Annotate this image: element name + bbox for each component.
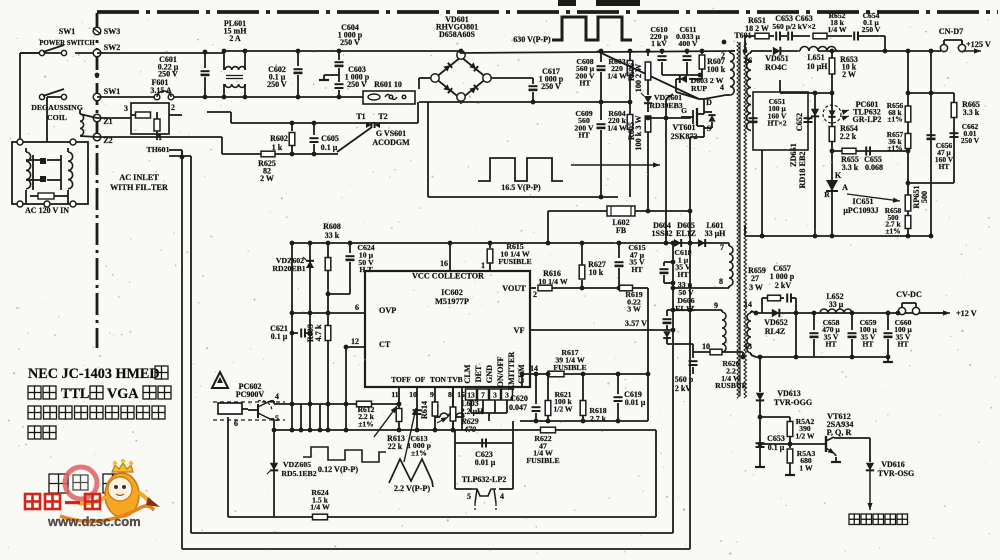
label VS601 (372, 129, 410, 147)
svg-text:WITH FIL.TER: WITH FIL.TER (110, 183, 168, 192)
svg-text:CT: CT (379, 340, 391, 349)
capacitor C610 (658, 49, 667, 75)
svg-text:6: 6 (355, 303, 359, 312)
adjust arrow 2 (404, 408, 417, 462)
label C657 (770, 264, 795, 290)
label R625 (258, 159, 276, 183)
label C604 (338, 23, 363, 47)
svg-text:AC 120 V IN: AC 120 V IN (25, 206, 69, 215)
svg-text:10: 10 (409, 390, 417, 399)
svg-text:10: 10 (702, 342, 710, 351)
label VD616 (878, 460, 914, 478)
label R654 (840, 124, 858, 141)
label C611 (676, 25, 700, 48)
fusible resistor R601 box (363, 91, 415, 104)
label C653b (767, 434, 785, 452)
primary return y102 (419, 101, 630, 103)
label C608 (575, 57, 595, 88)
svg-text:10 1/4 W: 10 1/4 W (538, 277, 568, 286)
svg-text:ON/OFF: ON/OFF (496, 357, 505, 388)
switch pole 2 (39, 89, 66, 100)
IC602 box (365, 271, 530, 387)
svg-text:1 W: 1 W (799, 463, 813, 472)
capacitor C653b (756, 443, 765, 447)
capacitor C653 (776, 32, 787, 41)
zener VDZ601 (641, 93, 652, 103)
svg-text:100 2 W: 100 2 W (634, 63, 643, 92)
filter corner pin (44, 201, 50, 207)
wire x604 (0, 0, 1, 1)
ground VT612 (831, 454, 841, 462)
label S (707, 124, 712, 133)
label IC651 (843, 197, 878, 215)
node dot on border (95, 73, 100, 78)
pin 6 OVP wire (290, 303, 365, 315)
label PC601 (853, 100, 882, 124)
pin 2 (171, 103, 175, 112)
primary winding 2-4 (726, 51, 735, 95)
wire pin13 (751, 355, 888, 357)
bridge pin left (431, 74, 439, 82)
label R621 (553, 390, 572, 413)
degaussing coil (80, 110, 97, 137)
B+ rail to transformer (460, 51, 735, 53)
svg-text:TLP632-LP2: TLP632-LP2 (462, 475, 506, 484)
output +12V (920, 309, 977, 318)
waveform 2.2V triangle (389, 459, 433, 487)
label R609 rotated (306, 324, 323, 342)
label R617 (553, 348, 586, 372)
resistor R613 (396, 409, 402, 422)
resistor R602 (289, 121, 295, 157)
zener VDZ605 (267, 463, 278, 474)
label R612 (358, 405, 375, 428)
cap C608 (597, 49, 606, 105)
bridge diode 2 (469, 62, 478, 71)
label AC INLET (110, 173, 168, 192)
label R619 (625, 290, 642, 314)
vertical x191 (190, 156, 192, 533)
label L602 (612, 218, 629, 235)
svg-text:M51977P: M51977P (435, 297, 469, 306)
svg-text:+12 V: +12 V (956, 309, 977, 318)
svg-text:10 μH: 10 μH (807, 62, 829, 71)
label CT (379, 340, 391, 349)
svg-text:2: 2 (171, 103, 175, 112)
svg-text:POWER SWITCH: POWER SWITCH (39, 40, 95, 47)
svg-text:RD20EB1: RD20EB1 (272, 264, 305, 273)
pin 8 (719, 277, 723, 286)
svg-text:RL4Z: RL4Z (765, 327, 785, 336)
pin 9 (714, 301, 718, 310)
resistor R651 (755, 33, 774, 39)
pin 5 label (467, 492, 471, 501)
svg-text:10 k: 10 k (589, 268, 604, 277)
wire (962, 51, 964, 52)
title line 3 (28, 406, 165, 419)
label R613 (387, 434, 405, 451)
svg-text:TH601: TH601 (147, 145, 170, 154)
resistor R654 (829, 127, 835, 142)
zener ZD651 line (813, 91, 818, 236)
label C609 (574, 109, 594, 140)
wire pin8 return (671, 286, 729, 291)
svg-text:CV-DC: CV-DC (896, 290, 922, 299)
svg-text:3: 3 (493, 391, 497, 400)
pin 13 (744, 342, 752, 351)
svg-text:2: 2 (533, 290, 537, 299)
svg-text:±1%: ±1% (887, 144, 902, 153)
bridge diamond (435, 57, 487, 99)
diodes D604 D605 line (664, 241, 693, 246)
zener ZD651 (808, 109, 819, 121)
resistor R614 (432, 402, 438, 416)
svg-text:VDZ605: VDZ605 (283, 460, 311, 469)
primary return rail y197 (428, 196, 618, 198)
label C658 (822, 318, 840, 349)
svg-text:RUSBUE: RUSBUE (715, 381, 747, 390)
capacitor C615 (615, 241, 624, 291)
svg-text:0.068: 0.068 (865, 163, 883, 172)
svg-text:±1%: ±1% (885, 226, 900, 235)
resistor R627 (579, 241, 585, 291)
svg-text:250 V: 250 V (961, 136, 980, 145)
svg-text:www.dzsc.com: www.dzsc.com (47, 514, 141, 529)
svg-text:HT: HT (579, 79, 591, 88)
capacitor C655 (866, 147, 870, 156)
IC bottom labels (391, 375, 462, 384)
secondary gnd bus (745, 234, 933, 239)
TLP632 box (455, 421, 513, 489)
PC602 led box (218, 403, 248, 414)
label R614 rotated (420, 401, 429, 419)
wire pin14 (751, 311, 944, 316)
vertical x428 (428, 101, 461, 197)
svg-text:±1%: ±1% (358, 419, 374, 428)
resistor R604 (627, 102, 633, 197)
wire pin4 (270, 401, 274, 404)
svg-text:RD18 EB2: RD18 EB2 (798, 151, 807, 188)
svg-text:4.7 k: 4.7 k (314, 324, 323, 341)
winding pin4 wire (704, 95, 726, 99)
svg-text:COIL: COIL (47, 113, 67, 122)
watermark ring (65, 467, 97, 499)
resistor R616 (538, 285, 619, 291)
pin 14 (744, 300, 752, 309)
wire snubber join (662, 73, 702, 78)
label C662 (961, 122, 980, 145)
ferrite bead L602 (607, 206, 635, 216)
waveform 630V (552, 17, 632, 40)
wire y517 (228, 516, 656, 518)
resistor R619 (620, 285, 649, 291)
svg-text:33 μ: 33 μ (829, 300, 844, 309)
source wire (690, 132, 704, 310)
choke PL601 winding A (222, 49, 248, 70)
svg-text:VOUT: VOUT (502, 284, 526, 293)
watermark pian glyph (103, 474, 122, 493)
svg-text:IC602: IC602 (441, 288, 463, 297)
resistor R625 (261, 151, 275, 157)
cap C609 (597, 102, 606, 199)
capacitor C651 mark (749, 118, 758, 123)
svg-text:3: 3 (124, 104, 128, 113)
svg-text:5: 5 (467, 492, 471, 501)
label VOUT (502, 284, 526, 293)
label PL601 (224, 19, 248, 43)
capacitor C618 (660, 260, 676, 286)
TLP632 transistor (472, 489, 496, 510)
label C617 (539, 67, 564, 91)
wire VD613 down (758, 355, 763, 392)
C656 rail (929, 49, 934, 236)
svg-text:VT601: VT601 (672, 123, 695, 132)
svg-text:A: A (842, 183, 848, 192)
capacitor C623 (482, 439, 486, 448)
fuse F601 (154, 91, 174, 100)
svg-text:2 kV: 2 kV (775, 281, 791, 290)
wire pin10 R626 (693, 351, 710, 353)
watermark xin glyph (73, 475, 88, 490)
svg-text:VD651: VD651 (765, 54, 789, 63)
svg-text:H.T: H.T (359, 265, 373, 274)
output +125V (964, 40, 991, 54)
R665 C662 rail (953, 93, 955, 183)
pin VF wire (530, 328, 675, 333)
label L601 (705, 221, 727, 238)
svg-text:TTL: TTL (61, 386, 89, 402)
label G (681, 106, 687, 115)
wire y118 (207, 112, 418, 123)
svg-text:13: 13 (744, 342, 752, 351)
capacitor C603 (335, 68, 344, 99)
choke core (226, 76, 243, 79)
wire R5A2 down (758, 415, 790, 421)
rail after choke top (224, 50, 461, 52)
thermistor TH601 box (131, 103, 169, 134)
label R605 rotated (627, 115, 643, 151)
svg-text:2.2 V(P-P): 2.2 V(P-P) (394, 484, 431, 493)
wire y93 right (906, 91, 954, 96)
svg-text:OVP: OVP (379, 306, 396, 315)
wire (47, 97, 63, 142)
aux winding 7-8 (729, 243, 733, 288)
svg-text:TVR-OSG: TVR-OSG (878, 469, 914, 478)
label R629 (460, 417, 478, 434)
capacitor C605 (310, 121, 319, 157)
svg-text:SW1: SW1 (104, 87, 120, 96)
svg-text:27: 27 (751, 274, 759, 283)
svg-text:FUSIBLE: FUSIBLE (498, 257, 531, 266)
label R626 (715, 359, 747, 390)
label L651 (807, 53, 829, 71)
svg-text:RD5.1EB2: RD5.1EB2 (281, 469, 316, 478)
title line 1 (28, 366, 168, 382)
label VT612 (827, 412, 854, 437)
rail x346 (299, 347, 346, 432)
label C624 (357, 243, 374, 274)
node (788, 442, 793, 447)
label D606 (675, 296, 695, 313)
svg-text:R608: R608 (323, 222, 341, 231)
label R603 (607, 57, 627, 80)
filter corner pin (17, 201, 23, 207)
R653 rail (830, 49, 835, 93)
label D604 (652, 221, 673, 238)
resistor R603 (627, 49, 633, 105)
inductor L652 (812, 309, 855, 315)
svg-text:μPC1093J: μPC1093J (843, 206, 878, 215)
capacitor C656 (927, 135, 936, 140)
transistor VT601 (681, 108, 704, 134)
ground R5A3 (785, 470, 795, 475)
label C656 (935, 141, 954, 171)
wire y533 (191, 532, 673, 534)
label D (706, 98, 712, 107)
svg-text:560 p/2 kV×2: 560 p/2 kV×2 (772, 22, 815, 31)
resistor R624 (313, 514, 328, 520)
label R652 (827, 11, 846, 34)
svg-text:R601 10: R601 10 (374, 80, 402, 89)
svg-text:CLM: CLM (463, 364, 472, 383)
pin 10 (702, 342, 710, 351)
wire pin9 (667, 308, 722, 313)
svg-text:22 k: 22 k (388, 442, 403, 451)
label C660 (894, 318, 912, 349)
diode D606 (663, 325, 693, 352)
svg-text:7: 7 (481, 391, 485, 400)
resistor R658 (905, 216, 911, 229)
gate wire (646, 94, 691, 243)
label R656 (887, 101, 904, 124)
label D603 (691, 76, 724, 93)
diode VD651 (773, 47, 800, 55)
svg-text:VD652: VD652 (764, 318, 788, 327)
cap 33u 50V (663, 310, 672, 324)
label C603 (345, 65, 370, 89)
label C601 (158, 55, 179, 79)
svg-text:HT: HT (863, 340, 874, 349)
C651 box (753, 92, 808, 150)
spark gap electrodes (366, 122, 380, 128)
svg-text:±1%: ±1% (887, 115, 902, 124)
label RP651 rotated (912, 185, 929, 208)
svg-text:0.1 μ: 0.1 μ (271, 332, 288, 341)
switch SW1 labels (39, 27, 95, 47)
vertical x182 (181, 150, 183, 549)
label ZD651 rotated (789, 143, 807, 188)
svg-text:3.57 V: 3.57 V (625, 319, 647, 328)
wire pin5 (270, 419, 276, 432)
label R665 (962, 100, 980, 117)
connector Z2 (93, 133, 112, 145)
connector CV-DC (896, 290, 922, 315)
svg-text:VD613: VD613 (777, 389, 801, 398)
svg-text:K: K (835, 170, 842, 180)
resistor R612 (274, 401, 401, 407)
svg-text:1/4 W: 1/4 W (607, 123, 627, 132)
waveform 0.12V (303, 447, 386, 462)
bridge pin bottom (457, 93, 465, 104)
optocoupler PC601 (823, 105, 849, 123)
capacitor C652 mark (804, 118, 813, 122)
resistor R656 (905, 106, 911, 122)
wire (546, 211, 551, 245)
svg-text:RUP: RUP (691, 84, 707, 93)
svg-text:0.12 V(P-P): 0.12 V(P-P) (318, 465, 359, 474)
wire y183 (906, 181, 954, 186)
svg-text:0.1 μ: 0.1 μ (321, 143, 338, 152)
svg-text:HT: HT (826, 340, 837, 349)
label 16.5V (501, 183, 541, 192)
svg-text:HT×2: HT×2 (767, 119, 786, 128)
label VT601 (671, 123, 698, 141)
svg-text:4: 4 (275, 392, 279, 401)
wire y549 (182, 548, 690, 550)
inductor L651 (800, 47, 939, 52)
label R624 (310, 488, 330, 512)
wire (744, 225, 746, 236)
svg-text:250 V: 250 V (347, 80, 367, 89)
capacitor C624 (326, 241, 355, 297)
snubber wire up (743, 36, 755, 53)
svg-text:500: 500 (920, 191, 929, 203)
svg-text:3.3 k: 3.3 k (963, 108, 980, 117)
R601 element (368, 94, 406, 100)
bridge diode 4 (469, 85, 478, 94)
svg-text:6: 6 (234, 419, 238, 428)
watermark mascot body (105, 473, 139, 517)
svg-text:3: 3 (505, 391, 509, 400)
boxed pins 13 7 3 3 (466, 389, 513, 421)
label to-scan CJK (849, 514, 908, 525)
rail x310 (308, 241, 313, 430)
secondary winding 16 (747, 51, 751, 130)
label D605 (676, 221, 696, 238)
svg-text:S: S (707, 124, 712, 133)
filter corner pin (70, 139, 76, 145)
capacitor C658 (810, 313, 819, 357)
svg-text:P, Q, R: P, Q, R (827, 428, 852, 437)
label R627 (588, 260, 606, 277)
resistor R653 (829, 58, 835, 74)
wire top C651 (760, 80, 780, 238)
svg-text:1SS82: 1SS82 (652, 229, 673, 238)
svg-text:HT: HT (677, 270, 689, 279)
label C605 (321, 134, 339, 152)
svg-text:1 kV: 1 kV (651, 39, 667, 48)
label 2.2V (394, 484, 431, 493)
rail after choke bottom (224, 96, 363, 98)
label C602 (267, 65, 287, 89)
label AC 120 V IN (25, 206, 69, 215)
svg-text:3.3 k: 3.3 k (842, 163, 859, 172)
filter core (33, 155, 61, 190)
svg-text:DEGAUSSING: DEGAUSSING (31, 103, 83, 112)
filter winding right (68, 148, 73, 189)
svg-text:SW2: SW2 (104, 43, 120, 52)
label R615 (498, 242, 531, 266)
svg-text:2.2 k: 2.2 k (840, 132, 857, 141)
label VD601 (436, 15, 478, 39)
capacitor C602 (294, 49, 303, 100)
svg-text:R: R (824, 190, 830, 199)
label 630V (513, 0, 640, 44)
ground stub (319, 75, 339, 80)
wire x648 down (647, 288, 649, 421)
svg-text:FUSIBLE: FUSIBLE (553, 363, 586, 372)
label 560p 2kV (675, 375, 694, 393)
